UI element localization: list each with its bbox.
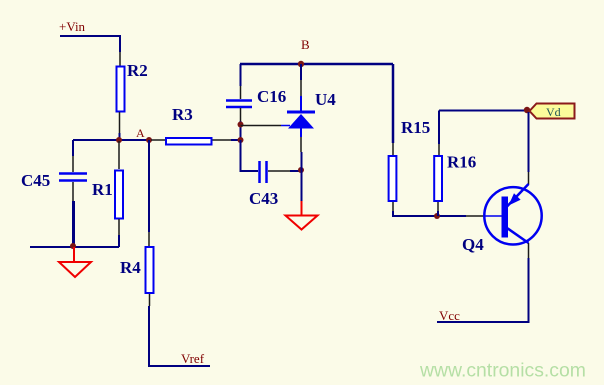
node dot R3/C43 (238, 137, 244, 143)
wire C43 branch (241, 140, 259, 171)
svg-text:C43: C43 (249, 189, 278, 208)
pin R4 bottom (149, 294, 151, 306)
pin R16 bottom (437, 202, 439, 211)
pin U4 anode bottom (300, 129, 302, 138)
svg-text:C45: C45 (21, 171, 50, 190)
capacitor C16 (226, 101, 252, 108)
svg-text:Q4: Q4 (462, 235, 484, 254)
wire R2 bottom to node A (119, 133, 121, 140)
pin R1 bottom (118, 219, 120, 235)
wire Vd down to Q4 collector (528, 112, 530, 172)
wire C16 bottom node down to R3 node (240, 121, 242, 140)
node dot diode bottom (298, 167, 304, 173)
power tag Vd (530, 104, 575, 119)
resistor R15 (389, 156, 397, 201)
wire anode line to U4 (241, 125, 282, 127)
pin R2 bottom (119, 112, 121, 133)
pin R4 top (148, 232, 150, 246)
wire +Vin horizontal and down to R2 (60, 36, 120, 52)
pin R1 top (118, 141, 120, 169)
wire B bus down to R15 (392, 64, 395, 143)
svg-text:Vcc: Vcc (439, 308, 460, 323)
node dot C16 bottom (238, 122, 244, 128)
svg-text:Vref: Vref (181, 351, 205, 366)
pin R2 top (119, 52, 121, 66)
wire U4 anode to ground (301, 152, 303, 201)
pin C45 top (72, 156, 74, 172)
svg-text:U4: U4 (315, 90, 336, 109)
wire bottom-left horizontal (30, 246, 119, 248)
resistor R3 (166, 138, 212, 145)
transistor Q4 (483, 184, 542, 245)
pin C45 bottom (72, 182, 74, 201)
capacitor C43 (260, 161, 267, 183)
resistor R16 (434, 156, 442, 201)
resistor R1 (115, 171, 123, 219)
svg-text:www.cntronics.com: www.cntronics.com (419, 360, 586, 382)
wire R3 right to node (231, 139, 241, 141)
wire B down to U4 cathode (300, 64, 302, 80)
wire base bus to Q4 (466, 215, 483, 217)
wire C45 bottom to ground wire (72, 201, 75, 246)
svg-text:R16: R16 (447, 153, 476, 172)
node dot ground junction (70, 243, 76, 249)
resistor R2 (117, 67, 125, 112)
wire R16 bottom (437, 211, 439, 216)
wire R4 to Vref (149, 306, 210, 366)
pin R3 right (213, 139, 232, 141)
pin Q4 emitter bottom (528, 243, 530, 258)
pin R15 bottom (392, 202, 394, 211)
pin C16 top (240, 86, 242, 99)
wire R16 top down (438, 111, 440, 145)
pin C16 bottom (240, 108, 242, 121)
svg-text:R15: R15 (401, 118, 430, 137)
node dot Vd (524, 107, 530, 113)
pin Q4 collector top (528, 172, 530, 185)
pin R3 left (151, 139, 165, 141)
node dot B (298, 61, 304, 67)
node dot A left (116, 137, 122, 143)
svg-text:C16: C16 (257, 87, 286, 106)
svg-text:R1: R1 (92, 180, 113, 199)
pin R16 top (438, 144, 440, 155)
svg-text:Vd: Vd (546, 105, 561, 119)
pin R15 top (392, 143, 394, 155)
wire Vd horizontal to R16 (439, 110, 527, 112)
node dot A right (146, 137, 152, 143)
diode U4 (287, 112, 315, 129)
ground symbol left (59, 247, 91, 277)
svg-text:B: B (301, 37, 310, 52)
wire node B horizontal (top bus) (240, 63, 393, 66)
wire R15 bottom to base bus (393, 211, 466, 216)
node dot R16 bottom (434, 213, 440, 219)
capacitor C45 (59, 174, 87, 181)
wire R1 bottom (118, 235, 120, 247)
svg-text:R2: R2 (127, 61, 148, 80)
wire C45 branch from node A down (72, 140, 74, 156)
svg-text:A: A (136, 126, 145, 140)
ground symbol middle (286, 201, 318, 230)
wire B down to C16 (240, 64, 242, 86)
wire node A horizontal (73, 139, 151, 141)
wire Q4 emitter to Vcc (437, 258, 529, 322)
pin C43 right (268, 170, 290, 172)
svg-text:R3: R3 (172, 105, 193, 124)
wire R4 branch from node A down (148, 140, 150, 232)
resistor R4 (146, 247, 154, 293)
svg-text:R4: R4 (120, 258, 141, 277)
wire C43 right to diode node (290, 170, 301, 172)
svg-text:+Vin: +Vin (59, 19, 86, 34)
